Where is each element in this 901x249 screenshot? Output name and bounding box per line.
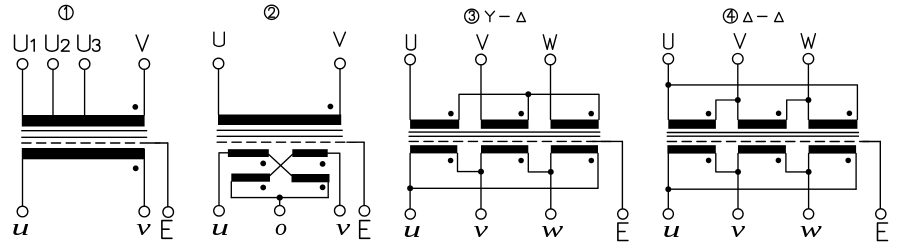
T2 core line 1 bbox=[217, 129, 342, 131]
T1 screen dashed line bbox=[22, 142, 160, 144]
polarity dot T3 primary b bbox=[518, 111, 524, 117]
wire bar c to w (T3) bbox=[550, 153, 552, 208]
T4 secondary winding bar c bbox=[809, 145, 857, 153]
delta link a-b (T3) bbox=[458, 153, 482, 171]
label U (T4) bbox=[664, 34, 673, 49]
svg-text:v: v bbox=[136, 215, 151, 241]
wire screen to E terminal bbox=[167, 143, 169, 207]
wire bar2 right to Y bus bbox=[527, 94, 529, 119]
wire bar c right to bottom bus (T3) bbox=[597, 153, 599, 188]
wire U3 to winding bbox=[84, 69, 86, 115]
wire V to winding (T3) bbox=[480, 65, 482, 120]
junction dot v wire (T4) bbox=[735, 169, 741, 175]
polarity dot T2 sec TR bbox=[320, 161, 326, 167]
step bar2 right to W (T4) bbox=[787, 100, 809, 120]
T1 core line 2 bbox=[22, 136, 147, 138]
polarity dot T4 primary a bbox=[706, 111, 712, 117]
svg-text:o: o bbox=[275, 215, 287, 241]
wire W to winding (T4) bbox=[807, 64, 809, 119]
wire U to winding (T3) bbox=[409, 65, 411, 120]
step bar1 right to V (T4) bbox=[716, 100, 738, 120]
T4 core line 2 bbox=[667, 135, 858, 137]
polarity dot T4 sec a bbox=[706, 158, 712, 164]
junction dot W step (T4) bbox=[805, 97, 811, 103]
polarity dot T3 primary a bbox=[448, 111, 454, 117]
wire screen to E terminal (T4) bbox=[879, 142, 881, 209]
wire bar b to v (T3) bbox=[480, 153, 482, 208]
polarity dot T4 primary b bbox=[776, 111, 782, 117]
polarity dot T2 sec BL bbox=[260, 185, 266, 191]
T1 core line 1 bbox=[22, 130, 147, 132]
label U3 bbox=[78, 35, 100, 51]
T4 primary winding bar B bbox=[738, 120, 787, 129]
T4 primary winding bar C bbox=[808, 120, 857, 129]
terminal U3 bbox=[79, 59, 90, 70]
label E (T4) bbox=[878, 223, 888, 241]
header circled 4 bbox=[723, 9, 737, 23]
wire W to winding (T3) bbox=[550, 65, 552, 120]
wire winding to v bbox=[143, 149, 145, 206]
wire bar c right to bottom bus (T4) bbox=[855, 154, 857, 190]
T3 screen dashed line bbox=[409, 140, 614, 142]
junction dot Y bus bbox=[525, 91, 531, 97]
terminal w (T3) bbox=[546, 209, 556, 219]
terminal U (T2) bbox=[213, 58, 224, 69]
wire BL winding to bus bbox=[230, 182, 232, 198]
polarity dot T3 sec a bbox=[448, 158, 454, 164]
step bar a to v wire (T4 secondary) bbox=[716, 154, 738, 172]
junction dot u wire (T4) bbox=[665, 186, 671, 192]
header dash (Y-D) bbox=[500, 15, 509, 17]
polarity dot T3 sec c bbox=[589, 158, 595, 164]
wire bar a to u (T3) bbox=[409, 153, 411, 208]
terminal U2 bbox=[48, 59, 59, 70]
T2 primary winding bar bbox=[218, 115, 341, 126]
terminal v (T4) bbox=[733, 209, 743, 219]
wire tap to o bbox=[279, 198, 281, 206]
terminal U1 bbox=[17, 59, 28, 70]
terminal E (T4) bbox=[876, 209, 886, 219]
T2 core line 2 bbox=[217, 135, 342, 137]
wire BR winding to bus bbox=[327, 182, 329, 197]
junction dot o-tap bbox=[277, 195, 283, 201]
T3 primary winding bar B bbox=[481, 120, 529, 129]
T4 secondary winding bar a bbox=[667, 145, 715, 153]
wire bar b to v (T4) bbox=[737, 154, 739, 209]
header delta (Y-D) bbox=[517, 12, 526, 21]
T2 secondary bus bbox=[231, 197, 328, 199]
wire U to winding (T4) bbox=[667, 64, 669, 119]
terminal V (T1) bbox=[139, 59, 150, 70]
junction dot u wire (T3) bbox=[407, 185, 413, 191]
T3 core line 2 bbox=[409, 135, 600, 137]
wire V to winding (T2) bbox=[339, 69, 341, 115]
T2 screen dashed line bbox=[217, 141, 356, 143]
T3 secondary winding bar a bbox=[410, 145, 457, 153]
terminal W (T3) bbox=[545, 54, 556, 65]
junction dot U bus (T4) bbox=[665, 82, 671, 88]
wire U2 to winding bbox=[52, 69, 54, 115]
label E (T1) bbox=[162, 221, 172, 239]
terminal V (T3) bbox=[476, 54, 487, 65]
terminal W (T4) bbox=[803, 54, 814, 65]
terminal U (T4) bbox=[663, 54, 674, 65]
terminal u (T3) bbox=[405, 209, 415, 219]
Y bus with corners (T3 primary star) bbox=[459, 94, 599, 119]
label U2 bbox=[46, 35, 69, 51]
label U1 bbox=[15, 35, 35, 51]
wire U1 to winding bbox=[22, 69, 24, 115]
header dash (D-D) bbox=[758, 15, 767, 17]
header delta 2 (D-D) bbox=[775, 12, 784, 21]
polarity dot T3 primary c bbox=[588, 111, 594, 117]
svg-text:w: w bbox=[800, 216, 823, 243]
label U (T3) bbox=[407, 35, 416, 50]
label V (T2) bbox=[334, 32, 346, 46]
wire U to winding (T2) bbox=[218, 69, 220, 115]
T4 delta top bus bbox=[668, 85, 857, 120]
terminal u (T1) bbox=[17, 206, 28, 217]
T4 screen dashed line bbox=[667, 141, 872, 143]
wire screen to E terminal (T2) bbox=[363, 142, 365, 205]
header circled 3 bbox=[465, 9, 479, 23]
wire V to winding bbox=[143, 69, 145, 115]
svg-text:u: u bbox=[12, 214, 30, 241]
svg-text:v: v bbox=[474, 217, 489, 243]
T3 primary winding bar A bbox=[410, 120, 459, 129]
T3 bottom bus bbox=[410, 187, 598, 189]
label U (T2) bbox=[214, 32, 224, 46]
label E (T3) bbox=[618, 223, 628, 241]
polarity dot T4 sec c bbox=[845, 158, 851, 164]
wire TR winding to v bbox=[328, 153, 340, 205]
svg-text:u: u bbox=[211, 214, 229, 241]
T3 primary winding bar C bbox=[551, 120, 599, 129]
T3 secondary winding bar c bbox=[551, 145, 598, 153]
T2 secondary winding bar bottom-right bbox=[292, 174, 330, 182]
terminal V (T2) bbox=[335, 58, 346, 69]
label W (T4) bbox=[801, 34, 815, 49]
wire screen to E terminal (T3) bbox=[621, 141, 623, 208]
junction dot V step (T4) bbox=[735, 97, 741, 103]
svg-text:v: v bbox=[731, 217, 746, 243]
T2 secondary winding bar top-right bbox=[292, 149, 327, 157]
T2 secondary winding bar top-left bbox=[228, 149, 269, 157]
terminal v (T1) bbox=[139, 206, 150, 217]
header circled 1 bbox=[59, 5, 73, 19]
T3 secondary winding bar b bbox=[481, 145, 528, 153]
label E (T2) bbox=[360, 221, 370, 239]
wire bar a to u (T4) bbox=[667, 154, 669, 209]
svg-text:v: v bbox=[336, 215, 351, 241]
terminal w (T4) bbox=[804, 209, 814, 219]
terminal V (T4) bbox=[733, 54, 744, 65]
terminal E (T3) bbox=[618, 209, 628, 219]
terminal v (T2) bbox=[335, 205, 346, 216]
polarity dot T1 secondary bbox=[133, 165, 139, 171]
label W (T3) bbox=[543, 35, 556, 50]
T1 primary winding bar bbox=[22, 115, 145, 127]
wire TL winding to u bbox=[219, 153, 228, 206]
terminal u (T4) bbox=[663, 209, 673, 219]
junction dot v wire (T3) bbox=[478, 169, 484, 175]
polarity dot T2 primary bbox=[328, 104, 334, 110]
crossing wire TL to BR bbox=[269, 155, 292, 176]
polarity dot T2 sec TL bbox=[260, 161, 266, 167]
polarity dot T2 sec BR bbox=[320, 184, 326, 190]
polarity dot T1 primary bbox=[132, 104, 138, 110]
crossing wire TR to BL bbox=[270, 155, 292, 176]
terminal o (T2) bbox=[275, 206, 285, 216]
header circled 2 bbox=[265, 5, 279, 19]
polarity dot T3 sec b bbox=[518, 158, 524, 164]
svg-text:u: u bbox=[403, 216, 421, 243]
header Y bbox=[485, 11, 494, 21]
T4 bottom bus bbox=[668, 188, 856, 190]
label V (T1 primary) bbox=[136, 35, 148, 51]
T4 secondary winding bar b bbox=[738, 145, 786, 153]
terminal u (T2) bbox=[214, 206, 225, 217]
terminal U (T3) bbox=[405, 54, 416, 65]
polarity dot T4 primary c bbox=[847, 111, 853, 117]
wire bar c to w (T4) bbox=[808, 154, 810, 209]
T4 primary winding bar A bbox=[668, 120, 716, 129]
step bar b to w wire (T4 secondary) bbox=[786, 154, 809, 172]
wire winding to u bbox=[22, 159, 24, 206]
header delta 1 (D-D) bbox=[744, 12, 753, 21]
junction dot w wire (T4) bbox=[806, 169, 812, 175]
terminal E (T1) bbox=[163, 207, 174, 218]
T1 secondary winding bar bbox=[22, 148, 145, 159]
svg-text:w: w bbox=[541, 216, 564, 243]
junction dot w wire (T3) bbox=[548, 169, 554, 175]
polarity dot T4 sec b bbox=[776, 158, 782, 164]
terminal v (T3) bbox=[476, 209, 486, 219]
label V (T4) bbox=[734, 34, 745, 49]
delta link b-c (T3) bbox=[528, 153, 551, 172]
label V (T3) bbox=[477, 35, 488, 50]
T4 core line 1 bbox=[667, 132, 858, 134]
terminal E (T2) bbox=[359, 206, 370, 217]
T2 secondary winding bar bottom-left bbox=[231, 174, 270, 182]
T3 core line 1 bbox=[409, 131, 600, 133]
svg-text:u: u bbox=[663, 216, 681, 243]
wire V to winding (T4) bbox=[737, 64, 739, 119]
